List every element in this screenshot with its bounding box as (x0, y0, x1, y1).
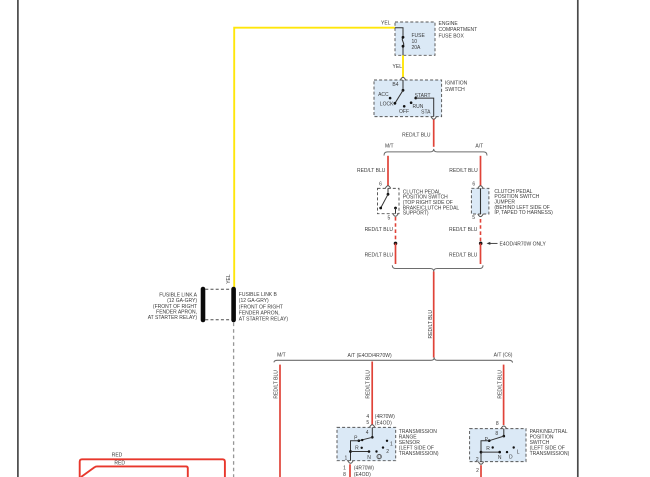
svg-text:RED/LT BLU: RED/LT BLU (449, 168, 478, 174)
label clutch pedal position switch (403, 189, 460, 216)
split bracket M/T A/T (384, 149, 487, 156)
svg-text:RED/LT BLU: RED/LT BLU (428, 310, 434, 339)
wire RED/LT BLU to park/neutral position switch (503, 365, 505, 425)
pin STA connector (431, 117, 436, 120)
svg-text:YEL: YEL (393, 64, 403, 70)
svg-text:ACC: ACC (378, 92, 389, 98)
svg-text:RED/LT BLU: RED/LT BLU (402, 133, 431, 139)
svg-text:4: 4 (366, 430, 369, 436)
svg-text:LOCK: LOCK (380, 101, 394, 107)
svg-text:2: 2 (386, 449, 389, 455)
right page rule (577, 0, 579, 477)
svg-text:6: 6 (472, 181, 475, 187)
svg-text:6: 6 (379, 181, 382, 187)
svg-text:AT STARTER RELAY): AT STARTER RELAY) (239, 317, 289, 323)
3-way split bracket (274, 357, 513, 362)
svg-text:A/T: A/T (475, 144, 483, 150)
svg-text:R: R (355, 446, 359, 452)
wire RED/LT BLU A/T branch (480, 156, 482, 186)
svg-text:(E4OD): (E4OD) (354, 472, 371, 477)
svg-text:FUSE BOX: FUSE BOX (439, 33, 465, 39)
wire RED/LT BLU M/T run to bottom (279, 365, 281, 477)
engine compartment fuse box (395, 22, 435, 55)
svg-text:RED: RED (114, 460, 125, 466)
svg-text:L: L (517, 449, 520, 455)
svg-text:RED/LT BLU: RED/LT BLU (365, 253, 394, 259)
left page rule (17, 0, 19, 477)
wire RED/LT BLU solid to merge (right) (480, 243, 482, 264)
wire RED/LT BLU ignition to split (433, 120, 435, 147)
wire RED/LT BLU dashed (M/T below switch) (395, 217, 397, 242)
label ENGINE COMPARTMENT FUSE BOX (439, 21, 478, 39)
svg-text:N: N (498, 455, 502, 461)
wire RED/LT BLU M/T branch (387, 156, 389, 186)
svg-text:5: 5 (366, 420, 369, 426)
svg-text:RED/LT BLU: RED/LT BLU (365, 227, 394, 233)
svg-text:IP, TAPED TO HARNESS): IP, TAPED TO HARNESS) (494, 210, 553, 216)
wiper to LOCK (395, 90, 403, 103)
svg-text:20A: 20A (412, 45, 422, 51)
svg-text:ENGINE: ENGINE (439, 21, 459, 27)
svg-text:FUSIBLE LINK B: FUSIBLE LINK B (239, 292, 278, 298)
svg-text:RED/LT BLU: RED/LT BLU (449, 227, 478, 233)
park/neutral position switch (470, 426, 526, 464)
merge bracket (392, 265, 483, 271)
svg-text:N: N (367, 455, 371, 461)
svg-text:8: 8 (496, 421, 499, 427)
transmission range sensor (337, 425, 396, 464)
svg-text:B4: B4 (392, 82, 398, 88)
svg-text:RED: RED (112, 452, 123, 458)
svg-text:(FRONT OF RIGHT: (FRONT OF RIGHT (239, 304, 283, 310)
wire RED outer (bottom left) (80, 459, 225, 477)
svg-text:8: 8 (495, 431, 498, 437)
svg-text:COMPARTMENT: COMPARTMENT (439, 27, 478, 33)
svg-text:RED/LT BLU: RED/LT BLU (274, 370, 280, 399)
pin B4 connector (400, 77, 405, 80)
svg-text:5: 5 (388, 215, 391, 221)
wire YEL from fuse box to fusible link (top horizontal + left vertical) (234, 28, 395, 289)
svg-text:SWITCH: SWITCH (445, 87, 465, 93)
wire RED below transmission range sensor (349, 464, 351, 477)
svg-text:FENDER APRON,: FENDER APRON, (239, 310, 280, 316)
svg-text:AT STARTER RELAY): AT STARTER RELAY) (148, 315, 198, 321)
position contacts (389, 97, 392, 100)
svg-text:A/T (C6): A/T (C6) (494, 353, 513, 359)
svg-text:R: R (486, 446, 490, 452)
transmission range sensor pin labels (366, 414, 395, 426)
label transmission range sensor (399, 429, 439, 457)
label park/neutral position switch (530, 429, 570, 457)
fusible link B (231, 289, 236, 320)
svg-text:TRANSMISSION): TRANSMISSION) (399, 451, 439, 457)
wire RED inner (bottom left) (81, 466, 188, 477)
svg-text:RED/LT BLU: RED/LT BLU (357, 168, 386, 174)
svg-text:(4R70W): (4R70W) (354, 466, 374, 472)
annotation arrow E4OD/4R70W ONLY (487, 241, 547, 247)
svg-text:IGNITION: IGNITION (445, 81, 468, 87)
svg-text:4: 4 (366, 414, 369, 420)
wire RED below park/neutral position switch (480, 465, 482, 477)
svg-text:OFF: OFF (399, 109, 409, 115)
svg-text:SUPPORT): SUPPORT) (403, 211, 429, 217)
clutch pedal position switch jumper (A/T) (471, 181, 489, 221)
label fusible link B (239, 292, 289, 322)
svg-text:RED/LT BLU: RED/LT BLU (449, 253, 478, 259)
dashed tie bottom (205, 319, 231, 321)
label clutch pedal position switch jumper (494, 189, 553, 216)
fusible link A (201, 289, 206, 320)
svg-text:(E4OD): (E4OD) (375, 420, 392, 426)
label IGNITION SWITCH (445, 81, 468, 93)
junction dot left (394, 242, 398, 246)
svg-text:8: 8 (343, 472, 346, 477)
svg-text:RED/LT BLU: RED/LT BLU (497, 370, 503, 399)
svg-text:(4R70W): (4R70W) (375, 414, 395, 420)
svg-text:STA: STA (421, 110, 431, 116)
svg-text:1: 1 (390, 441, 393, 447)
START wire to STA exit (416, 98, 434, 117)
svg-text:1: 1 (345, 456, 348, 462)
svg-text:1: 1 (343, 465, 346, 471)
svg-text:D: D (509, 455, 513, 461)
svg-text:RED/LT BLU: RED/LT BLU (365, 370, 371, 399)
svg-text:M/T: M/T (277, 353, 286, 359)
wire dashed gray below fusible link B (233, 323, 235, 477)
clutch pedal position switch (M/T) (378, 181, 400, 221)
svg-text:YEL: YEL (381, 21, 391, 27)
wire RED/LT BLU solid to merge (left) (395, 243, 397, 264)
wire YEL fuse box to ignition switch (402, 55, 404, 77)
svg-text:A/T (E4OD/4R70W): A/T (E4OD/4R70W) (348, 353, 392, 359)
transmission range sensor lower pin labels (343, 465, 374, 477)
svg-text:YEL: YEL (226, 274, 232, 284)
dashed tie top (205, 288, 231, 290)
wire RED/LT BLU to transmission range sensor (371, 362, 373, 425)
label fusible link A (148, 292, 198, 321)
junction dot right (479, 242, 483, 246)
wire RED/LT BLU trunk to 3-way split (433, 272, 435, 358)
ignition switch (374, 77, 442, 119)
svg-text:M/T: M/T (385, 144, 394, 150)
wire RED/LT BLU dashed (A/T below jumper) (480, 219, 482, 242)
svg-text:(12 GA-GRY): (12 GA-GRY) (239, 298, 269, 304)
svg-text:E4OD/4R70W ONLY: E4OD/4R70W ONLY (500, 241, 547, 247)
svg-text:2: 2 (476, 468, 479, 474)
svg-text:TRANSMISSION): TRANSMISSION) (530, 451, 570, 457)
svg-text:5: 5 (472, 215, 475, 221)
